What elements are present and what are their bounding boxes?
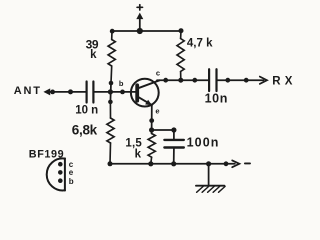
RX arrow head [260, 77, 267, 84]
svg-text:e: e [155, 107, 159, 116]
minus supply arrow head [232, 160, 239, 167]
svg-text:6,8k: 6,8k [72, 122, 98, 137]
resistor 6.8k [107, 102, 114, 164]
BF199 pin dot c [58, 162, 63, 167]
node top rail center junction [137, 28, 143, 34]
node output dot 2 [244, 78, 249, 83]
wire bottom rail [110, 163, 235, 165]
svg-text:4,7 k: 4,7 k [187, 37, 213, 49]
wire top rail [112, 30, 181, 32]
svg-text:b: b [119, 79, 124, 88]
svg-text:10 n: 10 n [75, 104, 98, 116]
wire emitter down [151, 105, 153, 134]
ANT arrow [43, 88, 50, 95]
BF199 package outline [47, 158, 65, 190]
svg-text:ANT: ANT [14, 85, 42, 97]
node output dot 1 [225, 78, 230, 83]
wire ANT to C1 [49, 91, 86, 93]
node 4.7k bottom [178, 78, 183, 83]
ground [196, 164, 225, 193]
V+ supply arrow [136, 13, 143, 31]
V+ supply plus sign [137, 5, 142, 10]
svg-text:b: b [69, 177, 74, 186]
resistor 4.7k [177, 31, 184, 80]
svg-text:1,5: 1,5 [125, 137, 142, 149]
node base dot [120, 90, 125, 95]
node top rail left [110, 29, 115, 34]
node 6.8k top [108, 100, 113, 105]
node top rail right [179, 28, 184, 33]
label 39k value [86, 38, 99, 61]
node ANT wire dot 2 [68, 89, 73, 94]
svg-text:10n: 10n [205, 92, 228, 106]
label minus sign [245, 162, 250, 164]
node rail C3 bottom [171, 161, 176, 166]
capacitor C2 10n [209, 69, 216, 91]
node rail 6.8k bottom [108, 161, 113, 166]
resistor 1.5k [148, 134, 155, 164]
node C3 top [171, 127, 176, 132]
node collector junction [163, 78, 168, 83]
wire 39k bottom down to 6.8k top [109, 83, 112, 102]
node 39k bottom [109, 81, 114, 86]
node rail dot right [224, 161, 229, 166]
capacitor C3 100n [164, 130, 183, 164]
svg-text:k: k [90, 49, 97, 61]
capacitor C1 10n [87, 82, 94, 103]
BF199 pin dot b [58, 178, 63, 183]
wire C2 to RX [218, 79, 264, 81]
wire C1 to base [94, 91, 136, 93]
node emitter branch junction [149, 127, 154, 132]
label 1.5k value [125, 137, 142, 160]
node rail ground junction [206, 161, 211, 166]
node emitter dot [149, 118, 154, 123]
svg-text:100n: 100n [187, 136, 220, 150]
wire emitter branch to C3 [152, 129, 174, 131]
BF199 pin dot e [58, 170, 63, 175]
transistor Q1 [131, 79, 160, 107]
svg-text:RX: RX [272, 76, 296, 88]
node collector dot 3 [192, 78, 197, 83]
wire collector rail [157, 79, 208, 81]
node base junction [108, 89, 113, 94]
node ANT wire dot 1 [50, 90, 55, 95]
resistor 39k [108, 31, 115, 83]
svg-text:k: k [135, 149, 142, 161]
svg-text:c: c [156, 69, 160, 78]
node rail 1.5k bottom [148, 161, 153, 166]
